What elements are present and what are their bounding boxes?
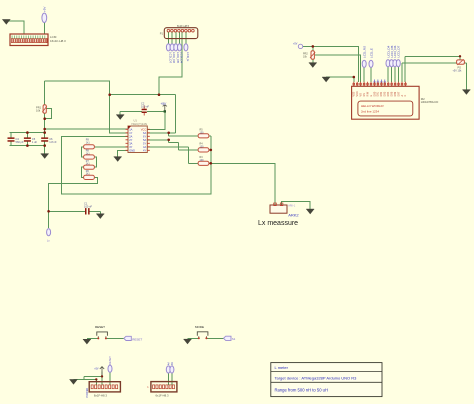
wire Lx node through C1 bbox=[49, 211, 101, 214]
svg-text:+5V: +5V bbox=[43, 7, 47, 12]
wire chain R to IC 3Y bbox=[95, 146, 128, 148]
pin LCD_E bbox=[369, 48, 373, 67]
svg-text:POWER: POWER bbox=[85, 388, 89, 398]
svg-text:5A: 5A bbox=[143, 138, 146, 142]
svg-text:560 pF: 560 pF bbox=[16, 140, 24, 144]
svg-text:LCD_D4: LCD_D4 bbox=[180, 52, 184, 63]
trimmer PR2 bbox=[303, 51, 315, 59]
ground IC bbox=[114, 157, 122, 162]
svg-text:2A: 2A bbox=[129, 134, 132, 138]
svg-text:RESET: RESET bbox=[108, 356, 112, 365]
wire chain link c bbox=[81, 167, 83, 177]
capacitor C2 bbox=[141, 102, 149, 116]
svg-text:RESET: RESET bbox=[95, 325, 105, 329]
svg-text:1 uF: 1 uF bbox=[32, 140, 38, 144]
wire SV2 pins bbox=[168, 373, 172, 385]
pin Lx bbox=[47, 229, 51, 243]
wire node row y94.7 bbox=[110, 94, 176, 96]
svg-text:LCD_D7: LCD_D7 bbox=[397, 45, 401, 57]
wire R right ends bbox=[208, 136, 211, 164]
svg-text:16x1F-H8.3: 16x1F-H8.3 bbox=[50, 39, 66, 43]
svg-text:Target device : ATMega328P Ard: Target device : ATMega328P Arduino UNO R… bbox=[275, 375, 358, 380]
svg-text:LCD_D6: LCD_D6 bbox=[172, 52, 176, 63]
resistor R6 bbox=[84, 170, 95, 179]
svg-text:3A: 3A bbox=[129, 141, 132, 145]
wire to IC pin 1A bbox=[45, 128, 128, 130]
wire IC GND bbox=[118, 150, 128, 157]
pin A4 at SV2 bbox=[166, 362, 170, 373]
svg-text:+5V: +5V bbox=[94, 367, 99, 370]
svg-text:LCD_D7: LCD_D7 bbox=[169, 52, 173, 63]
ground right edge bbox=[462, 90, 470, 95]
wire bus PR1 to cap C6 bbox=[44, 113, 46, 137]
pin LCD_D7 bbox=[166, 44, 172, 64]
trimmer PR3 backlight bbox=[453, 59, 465, 72]
pin LCD_D4 at lcd bbox=[386, 45, 390, 66]
connector ARK2 bbox=[270, 203, 299, 217]
wire IC 6Y row to R4 bbox=[147, 140, 199, 150]
svg-text:1A: 1A bbox=[129, 127, 132, 131]
svg-text:GND: GND bbox=[129, 148, 135, 152]
pin LCD_D6 bbox=[170, 44, 176, 64]
svg-text:2nd line 1234: 2nd line 1234 bbox=[361, 109, 379, 113]
svg-text:LCD_E: LCD_E bbox=[369, 48, 373, 58]
wire cap C5 stubs bbox=[26, 133, 28, 146]
wire SV1 gnd row bbox=[74, 379, 97, 384]
supply +5V at IC bbox=[161, 102, 168, 113]
ground MODE bbox=[184, 339, 192, 344]
pin RESET at SV1 bbox=[108, 356, 112, 373]
pin LCD_D6 at lcd bbox=[393, 45, 397, 66]
svg-text:100 nF: 100 nF bbox=[84, 204, 92, 208]
svg-text:ARK-1: ARK-1 bbox=[288, 205, 296, 208]
wire MODE button right bbox=[206, 337, 224, 339]
svg-text:1k1: 1k1 bbox=[86, 173, 91, 176]
svg-text:Lx meassure: Lx meassure bbox=[258, 220, 298, 227]
net flag S1 bbox=[224, 336, 236, 341]
svg-text:100: 100 bbox=[200, 131, 205, 134]
svg-text:3Y: 3Y bbox=[129, 145, 132, 149]
capacitor C5 bbox=[24, 137, 38, 144]
wire ARK pin2 to gnd bbox=[282, 201, 311, 209]
wire C2 rail gnd to +5V bbox=[120, 111, 165, 114]
svg-text:Range from 500 nH to 50 uH: Range from 500 nH to 50 uH bbox=[275, 388, 329, 393]
pin +5V at LCD bbox=[293, 43, 303, 49]
wire LCD K to backlight resistor bbox=[405, 56, 460, 82]
wire +5V to LCD VDD bbox=[303, 46, 358, 82]
net ties D0-D3 bbox=[373, 80, 386, 83]
pin LCD_D5 bbox=[174, 44, 180, 64]
svg-text:L meter: L meter bbox=[275, 365, 289, 370]
wire to ARK pin1 bbox=[211, 163, 275, 204]
svg-text:100: 100 bbox=[200, 145, 205, 148]
wire bus to PR1 bbox=[44, 81, 46, 105]
ground below caps bbox=[41, 154, 49, 159]
svg-text:1.8 nF: 1.8 nF bbox=[49, 140, 57, 144]
wire RESET button right bbox=[106, 337, 124, 339]
ground ARK pin2 bbox=[306, 209, 314, 214]
wire chain to Lx node bbox=[49, 177, 98, 211]
pin +5V top-left bbox=[42, 7, 47, 23]
wire IC 2A feedback bbox=[62, 136, 211, 194]
svg-text:10k: 10k bbox=[36, 109, 41, 113]
wire RS E pin ovals to LCD bbox=[364, 68, 371, 82]
resistor R4 bbox=[198, 143, 209, 152]
resistor R5 bbox=[198, 129, 209, 138]
connector JP1 8x1 header bbox=[160, 24, 198, 39]
ground below PR2 bbox=[309, 63, 317, 68]
svg-text:6x1F-H8.3: 6x1F-H8.3 bbox=[156, 394, 170, 398]
wire +5V pin to LCM header bbox=[43, 23, 45, 34]
svg-text:4A: 4A bbox=[143, 145, 146, 149]
ground SV1 bbox=[70, 380, 78, 385]
wire Lx node to pin bbox=[48, 211, 50, 228]
wire +5V to IC VCC bbox=[147, 111, 165, 129]
svg-text:6A: 6A bbox=[143, 131, 146, 135]
svg-text:S1: S1 bbox=[232, 337, 236, 341]
net flag RESET bbox=[124, 336, 143, 341]
pin LCD_RS bbox=[362, 46, 366, 68]
svg-text:74HC(T)14N: 74HC(T)14N bbox=[131, 122, 147, 126]
resistor R9 bbox=[84, 139, 95, 149]
capacitor C6 bbox=[41, 137, 57, 144]
svg-text:VCC: VCC bbox=[141, 127, 147, 131]
title block bbox=[271, 363, 382, 397]
pin LCD_D5 at lcd bbox=[390, 45, 394, 66]
wire to IC pin 1Y bbox=[110, 95, 128, 133]
capacitor C4 bbox=[8, 137, 24, 144]
svg-text:100 nF: 100 nF bbox=[141, 105, 149, 109]
svg-text:LCD_D5: LCD_D5 bbox=[176, 52, 180, 63]
connector LCM 16x1 header J1 bbox=[10, 34, 66, 46]
svg-text:1k1: 1k1 bbox=[86, 152, 91, 155]
op-amp U1 74HC(T)14N bbox=[126, 119, 150, 153]
svg-text:6Y: 6Y bbox=[143, 134, 146, 138]
resistor R8 bbox=[84, 150, 95, 159]
wire PR2 wiper to LCD VO bbox=[315, 55, 360, 82]
trimmer PR1 bbox=[36, 105, 47, 113]
ground RESET bbox=[83, 339, 91, 344]
svg-text:2Y: 2Y bbox=[129, 138, 132, 142]
svg-text:+5V 10k: +5V 10k bbox=[453, 69, 463, 72]
switch RESET bbox=[95, 325, 107, 339]
svg-text:LCD_RS: LCD_RS bbox=[363, 46, 367, 58]
wire RESET button left bbox=[87, 337, 98, 339]
wire chain link b bbox=[95, 157, 97, 167]
svg-text:8x1F-H8.3: 8x1F-H8.3 bbox=[94, 394, 108, 398]
svg-text:ARK2: ARK2 bbox=[288, 212, 299, 217]
wire JP1 pin5 to oscillator node bbox=[159, 32, 182, 95]
wire MODE button left bbox=[188, 337, 199, 339]
svg-text:4Y: 4Y bbox=[143, 148, 146, 152]
svg-text:HELLO WORLD!: HELLO WORLD! bbox=[361, 104, 384, 108]
wire gnd to LCM header bbox=[7, 21, 24, 34]
svg-text:RESET: RESET bbox=[132, 337, 142, 341]
supply +5V at SV1 bbox=[94, 367, 104, 377]
pin LCD_D4 bbox=[178, 44, 184, 64]
ground at LCD VSS bbox=[322, 77, 330, 82]
svg-text:5Y: 5Y bbox=[143, 141, 146, 145]
switch MODE bbox=[195, 325, 208, 339]
wire C6 to ground bbox=[44, 142, 46, 154]
pin LCD_D7 at lcd bbox=[396, 45, 400, 66]
wire branch to R5 bbox=[169, 133, 199, 136]
wire PR1 wiper loop bbox=[45, 109, 52, 119]
pin LCD_E bbox=[184, 44, 190, 62]
ground top-left bbox=[2, 20, 10, 25]
wire JP1 pad stubs to pin ovals bbox=[168, 32, 186, 45]
svg-text:LCD_E: LCD_E bbox=[186, 52, 190, 61]
wire IC 5Y row to R3 bbox=[147, 147, 199, 164]
wire PR2 stubs bbox=[312, 46, 314, 62]
wire cap top rail bbox=[10, 132, 45, 134]
wire LCD gnd to VSS bbox=[326, 77, 354, 82]
wire cap C4 stubs bbox=[10, 133, 12, 146]
svg-text:1k1: 1k1 bbox=[86, 141, 91, 144]
capacitor C1 bbox=[84, 201, 92, 214]
wire IC 6A row bbox=[147, 95, 175, 133]
connector SV2 analog header bbox=[147, 382, 177, 398]
svg-text:HD44780LCD: HD44780LCD bbox=[421, 100, 438, 104]
pin A5 at SV2 bbox=[170, 362, 174, 373]
svg-text:1Y: 1Y bbox=[129, 131, 132, 135]
svg-text:MODE: MODE bbox=[195, 325, 204, 329]
svg-text:8x1F-H8.5: 8x1F-H8.5 bbox=[177, 24, 190, 28]
resistor R7 bbox=[84, 160, 95, 169]
wire oscillator top rail bbox=[45, 81, 110, 95]
wire SV1 +5V pin bbox=[84, 372, 102, 385]
ground right of C1 bbox=[96, 214, 104, 219]
wire cap bottom rail bbox=[10, 145, 45, 147]
svg-text:+5V: +5V bbox=[293, 43, 298, 46]
display M2 HD44780LCD bbox=[352, 82, 439, 119]
wire SV1 reset pin bbox=[109, 372, 111, 385]
wire chain link a bbox=[81, 147, 83, 157]
ground below C2 bbox=[116, 115, 124, 120]
wire LCD A row bbox=[402, 63, 467, 90]
connector SV1 power header bbox=[85, 382, 121, 398]
svg-text:100: 100 bbox=[200, 159, 205, 162]
wire D4-D7 ovals to LCD bbox=[388, 67, 398, 82]
svg-text:P1: P1 bbox=[160, 32, 164, 36]
svg-text:1k1: 1k1 bbox=[86, 163, 91, 166]
resistor R3 bbox=[198, 156, 209, 165]
